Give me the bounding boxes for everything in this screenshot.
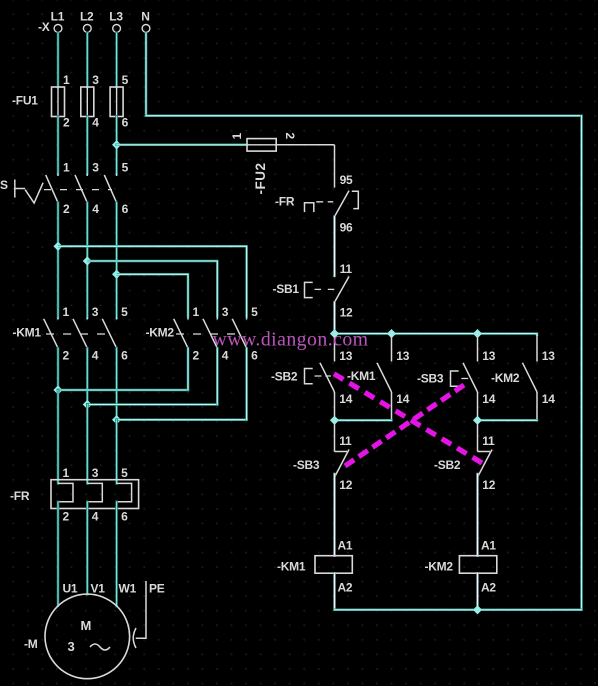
wire (333, 217, 335, 276)
svg-text:5: 5 (121, 305, 128, 319)
wire N vertical (145, 33, 148, 116)
coil KM2 (459, 539, 496, 595)
wire (86, 502, 89, 595)
overload relay FR label (10, 489, 30, 503)
wire (115, 117, 118, 174)
fuse FU1 pole 3 (110, 73, 129, 130)
motor M label (24, 637, 38, 651)
svg-text:13: 13 (396, 349, 409, 363)
PE wire (136, 581, 146, 638)
svg-text:-KM2: -KM2 (425, 560, 454, 574)
svg-text:-KM1: -KM1 (347, 369, 376, 383)
svg-text:12: 12 (482, 478, 495, 492)
svg-text:-SB1: -SB1 (273, 282, 300, 296)
contactor KM1 mechanical link (46, 333, 113, 335)
contactor KM2 main pole 1 (174, 305, 200, 363)
wire (115, 33, 118, 87)
svg-text:S: S (0, 178, 8, 192)
svg-text:14: 14 (482, 392, 495, 406)
wire L3 jumper to KM2 pole1 (117, 274, 188, 317)
svg-text:4: 4 (92, 116, 99, 130)
wire (86, 405, 89, 484)
overload FR trip symbol (305, 202, 334, 212)
svg-text:3: 3 (92, 466, 99, 480)
wire (57, 203, 60, 318)
coil KM1 label (277, 560, 306, 574)
SB2 actuator (305, 369, 332, 384)
svg-text:3: 3 (92, 161, 99, 175)
PE earth arc (133, 628, 136, 648)
contactor KM1 main label (13, 326, 42, 340)
wire control top rail (335, 334, 538, 336)
wire (86, 33, 89, 87)
svg-text:-SB3: -SB3 (417, 371, 444, 385)
svg-text:13: 13 (482, 349, 495, 363)
svg-text:A2: A2 (338, 581, 353, 595)
terminal N (141, 10, 150, 33)
svg-text:www.diangon.com: www.diangon.com (213, 329, 369, 351)
wire (476, 573, 478, 610)
svg-text:1: 1 (63, 161, 70, 175)
svg-text:4: 4 (92, 202, 99, 216)
mechanical link SB3 (dashed) (345, 385, 464, 466)
svg-text:-FR: -FR (275, 194, 295, 208)
node phase U join (53, 385, 62, 394)
wire tap to FU2 (117, 144, 247, 147)
node mid-right (473, 416, 482, 425)
fuse FU2 (230, 133, 297, 152)
motor sine wave (90, 644, 110, 650)
KM1 aux label (347, 369, 376, 383)
svg-text:-KM2: -KM2 (146, 326, 175, 340)
svg-text:6: 6 (122, 202, 129, 216)
FR NC label (275, 194, 295, 208)
node L2 branch (83, 256, 92, 265)
contactor KM1 aux NO contact (377, 334, 410, 421)
svg-text:14: 14 (396, 392, 409, 406)
svg-text:5: 5 (122, 73, 129, 87)
contactor KM2 main pole 2 (203, 305, 229, 363)
svg-text:95: 95 (340, 173, 353, 187)
watermark (213, 329, 369, 351)
coil KM2 label (425, 560, 454, 574)
contactor KM2 main label (146, 326, 175, 340)
fuse FU1 pole 1 (52, 73, 71, 130)
wire (115, 420, 118, 484)
KM2 aux label (491, 371, 520, 385)
contactor KM2 mechanical link (176, 333, 243, 335)
wire L2 jumper to KM2 pole2 (87, 261, 217, 318)
svg-text:11: 11 (482, 434, 495, 448)
motor 3 text (68, 639, 75, 654)
wire mid rail right (478, 419, 538, 422)
svg-text:N: N (141, 10, 149, 24)
wire (86, 348, 89, 404)
svg-text:5: 5 (251, 305, 258, 319)
fuse FU1 pole 2 (81, 73, 100, 130)
switch S label (0, 178, 8, 192)
node L3-FU2 tap (112, 140, 121, 149)
wire (57, 33, 60, 87)
svg-text:3: 3 (92, 73, 99, 87)
svg-text:12: 12 (339, 478, 352, 492)
svg-text:-KM2: -KM2 (491, 371, 520, 385)
pushbutton SB2 NC contact (478, 420, 496, 492)
svg-text:-SB2: -SB2 (271, 370, 298, 384)
pushbutton SB3 NO contact (463, 334, 496, 421)
svg-text:-FU1: -FU1 (12, 93, 38, 107)
svg-text:-FU2: -FU2 (253, 163, 268, 195)
wire (115, 203, 118, 318)
svg-text:L2: L2 (80, 10, 94, 24)
contactor KM1 main pole 2 (73, 305, 99, 363)
SB2 NO label (271, 370, 298, 384)
wire N down right edge (580, 116, 583, 610)
overload FR heater pole 1 (58, 466, 73, 524)
svg-text:L3: L3 (109, 10, 123, 24)
wire (476, 474, 478, 556)
svg-text:-X: -X (38, 20, 50, 34)
pushbutton SB1 NC contact (335, 262, 354, 320)
contactor KM1 main pole 3 (102, 305, 128, 363)
svg-text:A1: A1 (481, 539, 496, 553)
wire (57, 502, 60, 606)
svg-text:1: 1 (63, 466, 70, 480)
svg-text:3: 3 (68, 639, 75, 654)
wire U jumper (58, 348, 188, 390)
fuse FU1 label (12, 93, 38, 107)
wire (57, 390, 60, 483)
wire V jumper (87, 348, 217, 404)
svg-text:3: 3 (222, 305, 229, 319)
node L3 branch (112, 270, 121, 279)
svg-text:5: 5 (121, 466, 128, 480)
node rail-SB2 (330, 329, 339, 338)
svg-text:M: M (81, 618, 92, 633)
wire (57, 117, 60, 174)
overload relay FR NC contact (335, 173, 359, 234)
terminal strip -X label (38, 20, 50, 34)
mechanical link SB2 (dashed) (334, 374, 482, 463)
svg-text:L1: L1 (51, 10, 65, 24)
switch S pole 3 (104, 161, 128, 217)
wire (333, 302, 335, 333)
contactor KM2 main pole 3 (232, 305, 258, 363)
switch S handle (15, 180, 43, 204)
svg-text:6: 6 (121, 510, 128, 524)
svg-text:-M: -M (24, 637, 38, 651)
svg-text:-FR: -FR (10, 489, 30, 503)
node phase W join (112, 415, 121, 424)
node rail-KM1aux (387, 329, 396, 338)
wire (86, 203, 89, 318)
svg-text:14: 14 (339, 392, 352, 406)
motor terminals labels (63, 582, 137, 596)
node bottom-KM2 (473, 605, 482, 614)
node mid-left (330, 416, 339, 425)
svg-text:-SB3: -SB3 (293, 458, 320, 472)
svg-text:6: 6 (122, 116, 129, 130)
SB1 actuator (305, 282, 337, 297)
motor M circle (45, 594, 130, 679)
pushbutton SB3 NC contact (335, 420, 353, 492)
wire W jumper (117, 348, 247, 420)
wire (86, 117, 89, 174)
overload FR heater pole 2 (87, 466, 102, 524)
svg-text:96: 96 (340, 220, 353, 234)
svg-text:1: 1 (193, 305, 200, 319)
svg-text:U1: U1 (63, 582, 78, 596)
svg-text:2: 2 (63, 349, 70, 363)
svg-text:W1: W1 (119, 582, 137, 596)
svg-text:6: 6 (121, 349, 128, 363)
node phase V join (83, 400, 92, 409)
overload FR heater pole 3 (117, 466, 132, 524)
switch S mechanical link (44, 189, 112, 191)
terminal L2 (80, 10, 94, 33)
wire L1 jumper to KM2 pole3 (58, 246, 247, 317)
wire (115, 348, 118, 420)
svg-text:4: 4 (92, 510, 99, 524)
wire FU2 to FR (276, 145, 334, 188)
node L1 branch (53, 242, 62, 251)
SB3 NO label (417, 371, 444, 385)
motor M text (81, 618, 92, 633)
svg-text:2: 2 (63, 510, 70, 524)
wire (333, 573, 335, 610)
contactor KM2 aux NO contact (523, 334, 556, 421)
wire control bottom rail (335, 609, 582, 612)
switch S pole 2 (75, 161, 99, 217)
svg-text:4: 4 (92, 349, 99, 363)
SB3 NC label (293, 458, 320, 472)
svg-text:13: 13 (542, 349, 555, 363)
svg-text:2: 2 (283, 133, 297, 140)
svg-text:13: 13 (339, 349, 352, 363)
svg-text:A1: A1 (338, 539, 353, 553)
wire (57, 348, 60, 390)
terminal L1 (51, 10, 65, 33)
coil KM1 (315, 539, 353, 595)
node rail-SB3 (473, 329, 482, 338)
contactor KM1 main pole 1 (44, 305, 70, 363)
SB1 label (273, 282, 300, 296)
SB3 actuator (451, 371, 473, 386)
svg-text:-KM1: -KM1 (13, 326, 42, 340)
svg-text:PE: PE (149, 582, 165, 596)
svg-text:1: 1 (230, 133, 244, 140)
PE label (149, 582, 165, 596)
switch S pole 1 (46, 161, 70, 217)
svg-text:-KM1: -KM1 (277, 560, 306, 574)
svg-text:5: 5 (122, 161, 129, 175)
svg-text:V1: V1 (91, 582, 106, 596)
terminal L3 (109, 10, 123, 33)
wire (333, 474, 335, 556)
wire (115, 502, 118, 606)
svg-text:1: 1 (63, 73, 70, 87)
svg-text:14: 14 (542, 392, 555, 406)
svg-text:2: 2 (63, 116, 70, 130)
overload relay FR box (51, 480, 139, 509)
wire mid rail left (335, 419, 392, 422)
svg-text:-SB2: -SB2 (434, 458, 461, 472)
pushbutton SB2 NO contact (320, 334, 353, 421)
wire N horizontal to right edge (146, 114, 582, 117)
SB2 NC label (434, 458, 461, 472)
svg-text:1: 1 (63, 305, 70, 319)
svg-text:11: 11 (340, 262, 353, 276)
svg-text:2: 2 (63, 202, 70, 216)
svg-text:2: 2 (193, 349, 200, 363)
fuse FU2 label (253, 163, 268, 195)
svg-text:11: 11 (339, 434, 352, 448)
svg-text:A2: A2 (481, 581, 496, 595)
svg-text:12: 12 (340, 306, 353, 320)
svg-text:3: 3 (92, 305, 99, 319)
